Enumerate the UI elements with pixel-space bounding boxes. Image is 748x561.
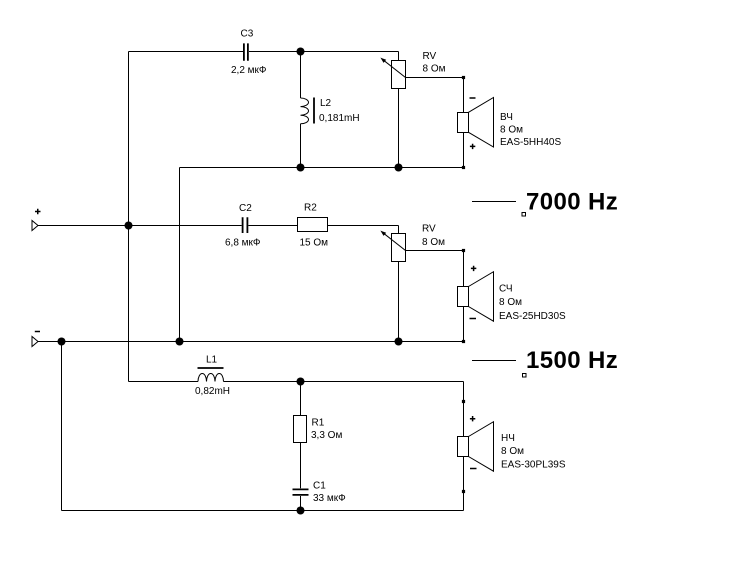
- svg-text:C3: C3: [241, 29, 254, 40]
- svg-text:8 Ом: 8 Ом: [501, 446, 524, 457]
- svg-text:ВЧ: ВЧ: [500, 112, 513, 123]
- svg-text:L1: L1: [206, 355, 218, 366]
- svg-text:0,82mH: 0,82mH: [195, 386, 230, 397]
- svg-text:3,3 Ом: 3,3 Ом: [311, 430, 342, 441]
- svg-text:RV: RV: [422, 224, 436, 235]
- svg-text:15 Ом: 15 Ом: [300, 238, 329, 249]
- svg-text:33 мкФ: 33 мкФ: [313, 493, 346, 504]
- svg-text:8 Ом: 8 Ом: [499, 297, 522, 308]
- svg-text:СЧ: СЧ: [499, 284, 513, 295]
- svg-text:RV: RV: [423, 51, 437, 62]
- svg-text:C1: C1: [313, 481, 326, 492]
- svg-text:8 Ом: 8 Ом: [423, 64, 446, 75]
- svg-text:EAS-25HD30S: EAS-25HD30S: [499, 311, 566, 322]
- svg-text:EAS-5HH40S: EAS-5HH40S: [500, 137, 561, 148]
- svg-text:НЧ: НЧ: [501, 433, 515, 444]
- svg-text:8 Ом: 8 Ом: [500, 125, 523, 136]
- svg-text:R1: R1: [312, 418, 325, 429]
- svg-text:0,181mH: 0,181mH: [319, 113, 360, 124]
- svg-text:EAS-30PL39S: EAS-30PL39S: [501, 460, 566, 471]
- svg-text:R2: R2: [304, 203, 317, 214]
- svg-text:8 Ом: 8 Ом: [422, 237, 445, 248]
- svg-text:C2: C2: [239, 203, 252, 214]
- svg-text:1500 Hz: 1500 Hz: [526, 347, 618, 374]
- svg-text:2,2 мкФ: 2,2 мкФ: [231, 65, 267, 76]
- svg-text:L2: L2: [320, 98, 332, 109]
- svg-text:7000 Hz: 7000 Hz: [526, 189, 618, 216]
- svg-text:6,8 мкФ: 6,8 мкФ: [225, 238, 261, 249]
